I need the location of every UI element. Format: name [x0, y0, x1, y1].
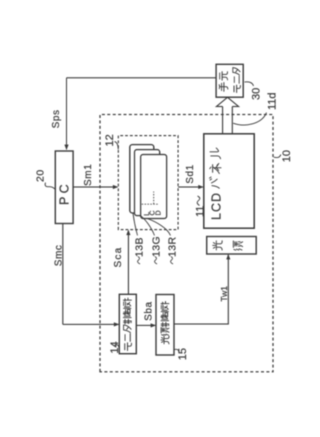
- arrowhead Sm1 into box 12: [113, 185, 118, 189]
- arrowhead Sd1 into box 11: [198, 185, 203, 189]
- dashed divider inside card 13R: [142, 192, 159, 205]
- svg-text:13G: 13G: [151, 236, 163, 257]
- svg-text:11: 11: [194, 206, 206, 217]
- label gen: [233, 241, 242, 250]
- box 11 LCD panel: [204, 134, 254, 228]
- wire Sps horizontal segment: [66, 78, 68, 150]
- svg-text:LCD: LCD: [210, 192, 224, 220]
- svg-text:30: 30: [251, 88, 263, 100]
- outer dashed box 10 (display device): [100, 115, 273, 372]
- arrowhead Tw1 into box 16: [226, 254, 230, 259]
- svg-text:15: 15: [177, 348, 189, 360]
- svg-text:20: 20: [35, 169, 47, 182]
- box 30: [216, 64, 243, 97]
- dashed box 12: [118, 136, 178, 230]
- box 15 text light-source-control kanji: [161, 336, 169, 344]
- arrowhead Sca into box 12: [126, 230, 130, 235]
- wire Smc vertical segment: [63, 323, 119, 325]
- wire Sba: [136, 324, 155, 326]
- wire Sps vertical segment into box 30: [67, 77, 217, 79]
- svg-text:Sba: Sba: [144, 301, 155, 321]
- svg-text:D: D: [155, 210, 162, 215]
- svg-text:Tw1: Tw1: [219, 286, 229, 302]
- label LCD panel katakana: [210, 177, 220, 188]
- svg-text:12: 12: [104, 134, 116, 146]
- svg-text:Sca: Sca: [113, 247, 124, 268]
- box 14 monitor control: [119, 294, 136, 353]
- hollow light arrow head: [216, 97, 238, 106]
- wire Sca: [127, 231, 129, 295]
- wire Smc horizontal segment: [62, 224, 64, 325]
- svg-text:Smc: Smc: [53, 244, 64, 266]
- box 16 light source: [207, 237, 257, 255]
- hollow light arrow shaft: [223, 107, 233, 134]
- svg-text:PC: PC: [58, 181, 72, 205]
- card 13R (front): [141, 155, 167, 219]
- arrowhead Sba into box 15: [151, 323, 156, 327]
- svg-text:Sd1: Sd1: [185, 164, 196, 184]
- wire Sd1: [178, 186, 203, 188]
- PC box (20): [55, 151, 73, 224]
- card 13G (middle): [135, 150, 160, 216]
- box 15 light source control: [156, 295, 174, 356]
- wire Tw1: [174, 255, 228, 324]
- label hikari: [213, 241, 222, 250]
- svg-text:13B: 13B: [133, 237, 145, 257]
- arrowhead Smc into box 14: [114, 322, 119, 326]
- box 14 text monitor-control kanji: [125, 343, 132, 351]
- arrowhead Sps into PC: [64, 145, 68, 150]
- svg-text:13R: 13R: [167, 237, 179, 257]
- svg-text:Sps: Sps: [51, 109, 62, 128]
- card 13B (back): [130, 145, 154, 213]
- svg-text:11d: 11d: [267, 92, 279, 110]
- svg-text:Sm1: Sm1: [83, 164, 94, 186]
- svg-text:10: 10: [281, 150, 293, 162]
- wire Sm1: [73, 186, 117, 188]
- box 30 text row 2: [234, 85, 240, 92]
- box 30 text row 1: [219, 83, 228, 92]
